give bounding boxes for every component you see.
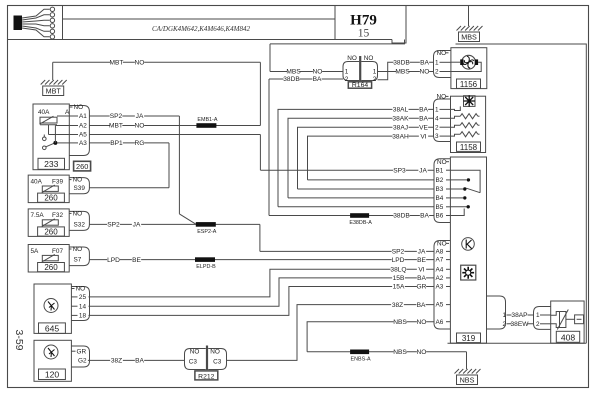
wire LPD-BE from S7 to A7	[89, 259, 434, 261]
svg-text:38DB: 38DB	[393, 213, 410, 220]
pin NO of F32	[69, 212, 71, 214]
svg-text:NO: NO	[364, 55, 374, 62]
label box 408	[556, 331, 579, 342]
svg-text:MBS: MBS	[461, 33, 477, 42]
splice EMB1-A	[196, 123, 216, 128]
label MBS-NO right of R164	[396, 68, 409, 75]
svg-text:15B: 15B	[393, 275, 405, 282]
svg-text:4: 4	[435, 115, 439, 122]
pin NO of 645	[71, 288, 74, 290]
wire 15A-GR from 645 pin18 to A3	[89, 287, 435, 316]
wire 1156 pin2 to motor	[451, 62, 481, 71]
svg-text:BA: BA	[313, 76, 322, 83]
svg-text:1: 1	[435, 107, 439, 114]
title block divider line	[63, 18, 336, 20]
svg-text:NBS: NBS	[393, 349, 407, 356]
pin GR of 120	[71, 350, 75, 352]
component box 408 aircon pressure sensor	[551, 301, 584, 343]
fuse element F39	[42, 186, 58, 191]
svg-text:B1: B1	[436, 167, 444, 174]
svg-text:NO: NO	[417, 349, 427, 356]
svg-text:38AP: 38AP	[511, 312, 528, 319]
wire SP2-JA vertical	[178, 116, 180, 214]
label SP2-JA at S32	[107, 221, 120, 228]
wire MBS-NO vertical	[269, 44, 271, 72]
svg-text:NO: NO	[437, 159, 447, 166]
label 38AJ-VE	[392, 124, 408, 131]
label MBT-NO left	[110, 59, 123, 66]
connector bracket B of 319	[434, 159, 450, 223]
pin NO of F07	[69, 248, 71, 250]
label 38AH-VI	[392, 133, 408, 140]
label 38EW	[511, 320, 527, 327]
svg-text:NBS: NBS	[460, 376, 475, 385]
component box 319 climate control	[450, 157, 486, 343]
wire SP2-JA to pin A8	[260, 250, 434, 252]
svg-text:38Z: 38Z	[111, 358, 122, 365]
svg-text:MBT: MBT	[46, 87, 62, 96]
svg-text:S39: S39	[74, 185, 86, 192]
svg-text:38DB: 38DB	[283, 76, 300, 83]
svg-text:2: 2	[536, 321, 540, 328]
label box 1158	[457, 142, 481, 151]
svg-text:RG: RG	[135, 140, 145, 147]
label 15A-GR	[392, 283, 405, 290]
connector bracket of 1158	[434, 99, 451, 142]
svg-text:B4: B4	[436, 195, 444, 202]
svg-text:A: A	[65, 109, 70, 116]
svg-text:A5: A5	[436, 302, 444, 309]
svg-text:A7: A7	[436, 257, 444, 264]
svg-text:A4: A4	[436, 266, 444, 273]
svg-text:C3: C3	[213, 358, 222, 365]
connector bracket of 408	[534, 307, 551, 330]
svg-text:NO: NO	[74, 104, 84, 111]
svg-text:3-59: 3-59	[13, 329, 25, 350]
svg-text:F32: F32	[52, 212, 63, 219]
svg-text:A8: A8	[436, 249, 444, 256]
label box 233	[38, 158, 65, 169]
svg-text:SP2: SP2	[392, 249, 405, 256]
svg-text:A3: A3	[79, 140, 87, 147]
label 38LQ-VI	[390, 266, 406, 273]
svg-text:NO: NO	[437, 94, 447, 101]
svg-text:1: 1	[345, 69, 349, 76]
component box 1158 fan resistor	[451, 96, 486, 152]
svg-text:38AH: 38AH	[392, 133, 409, 140]
svg-text:1: 1	[373, 69, 377, 76]
pin NO of F39	[69, 179, 71, 181]
svg-text:260: 260	[44, 194, 58, 203]
connector bracket of F07	[69, 247, 89, 266]
svg-text:R212: R212	[198, 373, 214, 380]
wire 38AP from 319 to 408	[509, 314, 534, 316]
wire BP1-RG vertical	[168, 143, 170, 188]
svg-text:NO: NO	[76, 286, 86, 293]
svg-text:BE: BE	[417, 257, 426, 264]
svg-text:7.5A: 7.5A	[31, 212, 45, 219]
svg-text:2: 2	[373, 76, 377, 83]
svg-text:260: 260	[44, 228, 58, 237]
svg-text:NO: NO	[420, 69, 430, 76]
svg-text:38AK: 38AK	[392, 116, 409, 123]
label BP1-RG	[110, 140, 123, 147]
connector bracket of F32	[69, 211, 89, 230]
wire MBS-NO from R164 pin2 right to 1156 pin2	[378, 71, 434, 73]
clock icon in 319	[462, 238, 475, 251]
svg-text:NO: NO	[135, 60, 145, 67]
svg-text:15: 15	[358, 28, 370, 40]
wire 38LQ-VI from 645 pin25 to A4	[89, 269, 435, 297]
svg-text:NO: NO	[437, 241, 447, 248]
wire MBT-NO from ground to junction	[53, 61, 261, 63]
splice ENBS-A	[350, 350, 369, 355]
svg-text:NO: NO	[347, 55, 357, 62]
label box 260 of F39	[38, 193, 65, 202]
svg-text:B2: B2	[436, 177, 444, 184]
splice E38DB-A	[350, 213, 369, 218]
label box 319	[457, 333, 481, 343]
svg-text:SP3: SP3	[393, 167, 406, 174]
label LPD-BE at S7	[107, 256, 120, 263]
label R212	[195, 371, 218, 380]
label SP2-JA at A8	[392, 248, 405, 255]
wire 38AH-VI to 1158 pin3	[308, 136, 434, 180]
svg-text:BA: BA	[135, 358, 144, 365]
svg-text:MBS: MBS	[286, 69, 301, 76]
label SP3-JA	[393, 167, 406, 174]
label 38AP	[511, 312, 527, 319]
svg-text:645: 645	[45, 324, 60, 334]
svg-text:2: 2	[435, 69, 439, 76]
svg-text:A6: A6	[436, 319, 444, 326]
label 38DB-BA right of R164	[393, 59, 409, 66]
label NBS-NO at ground	[394, 348, 407, 355]
svg-text:1: 1	[503, 312, 507, 319]
wire 38AL-BA to 1158 pin1	[278, 109, 434, 206]
svg-text:A2: A2	[79, 123, 87, 130]
wire 38DB-BA vertical	[268, 79, 270, 216]
wire SP2-JA from A1	[89, 115, 179, 117]
svg-text:319: 319	[462, 334, 476, 343]
svg-text:C3: C3	[189, 358, 198, 365]
wire NBS-NO from junction to A6	[307, 322, 434, 352]
wire MBS-NO top run	[270, 40, 405, 44]
wire 38AL-BA to pin B5	[278, 206, 434, 208]
connector bracket of 1156	[434, 51, 451, 78]
label 38DB-BA left of R164	[283, 76, 299, 83]
svg-text:BA: BA	[419, 107, 428, 114]
svg-text:233: 233	[44, 159, 59, 169]
fuse box F07	[28, 245, 69, 273]
svg-text:BP1: BP1	[110, 140, 123, 147]
label SP2-JA at A1	[110, 113, 123, 120]
wire SP2-JA from S32 through splice	[89, 223, 260, 225]
wire 38Z-BA from R212 to A5	[227, 305, 435, 361]
component box 645	[34, 284, 71, 333]
svg-text:F07: F07	[52, 248, 63, 255]
wire BP1-RG from A3	[89, 142, 169, 144]
svg-text:NO: NO	[73, 211, 83, 218]
svg-text:S7: S7	[74, 257, 82, 264]
ground MBT	[52, 62, 54, 80]
wire MBT-NO vertical	[259, 62, 261, 125]
icon circle 645	[44, 299, 58, 313]
wire 38DB-BA to pin B6	[269, 215, 434, 217]
harness connector icon	[14, 16, 23, 31]
fan icon 1158	[464, 96, 476, 107]
svg-text:A3: A3	[436, 284, 444, 291]
svg-text:NO: NO	[135, 123, 145, 130]
svg-text:S32: S32	[74, 222, 86, 229]
svg-text:BE: BE	[132, 257, 141, 264]
svg-text:ELPD-B: ELPD-B	[196, 264, 216, 270]
label 38Z-BA	[110, 357, 123, 364]
svg-text:260: 260	[44, 263, 58, 272]
wire 1156 pin1 to motor	[451, 61, 460, 63]
label MBS-NO left of R164	[287, 68, 300, 75]
label 15B-BA	[392, 275, 405, 282]
label box 1156	[457, 79, 481, 88]
splice ESP2-A	[196, 222, 216, 227]
wire 15B-BA from 645 pin14 to A2	[89, 278, 435, 306]
relay wiring in 233	[48, 125, 50, 135]
svg-text:JA: JA	[133, 222, 141, 229]
fuse box F32	[28, 209, 69, 237]
svg-text:H79: H79	[350, 13, 377, 29]
svg-text:A2: A2	[436, 275, 444, 282]
connector bracket R of 319	[487, 296, 506, 329]
svg-text:NO: NO	[313, 69, 323, 76]
svg-text:BA: BA	[420, 213, 429, 220]
sensor output icon in 408	[566, 318, 575, 320]
svg-text:NO: NO	[437, 50, 447, 57]
svg-text:3: 3	[435, 133, 439, 140]
svg-text:LPD: LPD	[392, 257, 405, 264]
pin 18	[71, 314, 77, 316]
fuse box F39	[28, 175, 69, 203]
svg-text:G2: G2	[78, 358, 87, 365]
svg-text:BA: BA	[417, 275, 426, 282]
svg-text:A5: A5	[79, 132, 87, 139]
label NBS-NO at A6	[394, 318, 407, 325]
wire 38AH-VI to pin B2	[308, 179, 435, 181]
fuse element F32	[42, 220, 58, 225]
svg-text:CA/DGK4M642,K4M646,K4M842: CA/DGK4M642,K4M646,K4M842	[152, 25, 251, 33]
label R164	[348, 82, 371, 88]
pin 25	[71, 296, 77, 298]
svg-text:38DB: 38DB	[393, 60, 410, 67]
svg-text:1158: 1158	[460, 143, 478, 152]
pin 14	[71, 305, 77, 307]
wire SP2-JA diagonal to splice	[179, 214, 196, 225]
wire NBS-NO to ground NBS	[307, 351, 466, 353]
svg-text:1: 1	[435, 59, 439, 66]
svg-text:NO: NO	[73, 177, 83, 184]
wire SP3-JA vertical	[259, 135, 261, 171]
title block divider title-box right edge	[334, 6, 336, 40]
svg-text:MBT: MBT	[110, 60, 124, 67]
label 38AK-BA	[392, 115, 408, 122]
fan speed switch in 319	[450, 170, 480, 193]
svg-text:BA: BA	[419, 116, 428, 123]
component box 120	[34, 340, 71, 381]
svg-text:NBS: NBS	[393, 319, 407, 326]
svg-text:VI: VI	[418, 267, 424, 274]
wire SP3-JA to pin B1	[260, 169, 434, 171]
svg-text:408: 408	[561, 332, 576, 342]
title block bottom edge	[8, 39, 393, 41]
air conditioning icon in 319	[461, 265, 476, 280]
label LPD-BE at A7	[392, 256, 405, 263]
pin NO of 233	[69, 106, 72, 108]
sensor element in 408	[551, 312, 560, 316]
component box 233 supply relay	[33, 104, 69, 170]
svg-text:MBT: MBT	[109, 123, 123, 130]
svg-text:BA: BA	[417, 302, 426, 309]
svg-text:LPD: LPD	[107, 257, 120, 264]
svg-text:260: 260	[76, 162, 88, 171]
connector R164	[343, 62, 359, 81]
svg-text:5A: 5A	[31, 248, 40, 255]
svg-text:MBS: MBS	[395, 69, 410, 76]
svg-text:F39: F39	[52, 178, 63, 185]
wire MBS-NO from R164 pin1 left	[270, 71, 343, 73]
svg-text:38Z: 38Z	[392, 302, 403, 309]
svg-text:14: 14	[79, 303, 87, 310]
title block narrow section	[392, 6, 406, 44]
connector R212	[185, 349, 206, 370]
wire 38AK-BA to pin B4	[288, 197, 434, 199]
label box 645	[39, 323, 66, 334]
label MBT-NO at A2	[110, 122, 123, 129]
svg-text:40A: 40A	[38, 109, 50, 116]
splice ELPD-B	[195, 257, 215, 262]
svg-text:1: 1	[536, 312, 540, 319]
fan motor icon 1156	[462, 55, 476, 69]
svg-text:18: 18	[79, 313, 87, 320]
ground MBS	[468, 6, 470, 26]
svg-text:40A: 40A	[31, 178, 43, 185]
label box 260 of F07	[38, 263, 65, 272]
svg-text:JA: JA	[419, 167, 427, 174]
wire 38AJ-VE to pin B3	[298, 188, 435, 190]
wire 38Z-BA from 120 G2 to R212	[88, 359, 185, 361]
svg-text:38AL: 38AL	[393, 107, 409, 114]
svg-text:EMB1-A: EMB1-A	[197, 117, 217, 123]
svg-text:JA: JA	[136, 113, 144, 120]
svg-text:ENBS-A: ENBS-A	[351, 356, 371, 362]
svg-text:GR: GR	[77, 348, 87, 355]
svg-text:A1: A1	[79, 113, 87, 120]
wire 38DB-BA from R164 pin1 right to 1156 pin1	[378, 62, 434, 80]
connector bracket of 120	[71, 346, 89, 367]
connector bracket A of 319	[434, 241, 450, 330]
svg-text:R164: R164	[352, 82, 368, 89]
svg-text:B5: B5	[436, 204, 444, 211]
svg-text:JA: JA	[418, 249, 426, 256]
wire BP1-RG to S39	[89, 187, 169, 189]
resistor elements 1158	[451, 106, 461, 110]
svg-text:NO: NO	[417, 319, 427, 326]
fuse element F07	[42, 255, 58, 260]
svg-text:B6: B6	[436, 213, 444, 220]
icon circle 120	[44, 345, 58, 359]
label box 260 of F32	[38, 227, 65, 236]
label 38Z-BA at A5	[391, 301, 404, 308]
svg-text:NO: NO	[210, 349, 220, 356]
wire SP2-JA vertical to A8 row	[259, 224, 261, 251]
svg-text:ESP2-A: ESP2-A	[197, 229, 217, 235]
connector label 260 bold	[74, 161, 91, 171]
svg-text:38EW: 38EW	[511, 321, 530, 328]
svg-text:2: 2	[435, 124, 439, 131]
svg-text:GR: GR	[417, 284, 427, 291]
svg-text:NO: NO	[190, 349, 200, 356]
svg-text:SP2: SP2	[110, 113, 123, 120]
svg-text:25: 25	[79, 294, 87, 301]
svg-text:1156: 1156	[460, 80, 478, 89]
svg-text:2: 2	[503, 321, 507, 328]
label 38DB-BA at B6	[393, 212, 409, 219]
relay switch arm in 233	[46, 143, 55, 147]
connector bracket 260 of 233	[69, 106, 89, 156]
ground NBS	[466, 352, 468, 369]
component box 1156 fan motor	[451, 48, 487, 89]
dashed enclosure around cooling module	[456, 44, 587, 343]
svg-text:15A: 15A	[393, 284, 405, 291]
svg-text:VE: VE	[419, 124, 428, 131]
label 38AL-BA	[392, 106, 408, 113]
svg-text:VI: VI	[420, 133, 426, 140]
connector bracket of F39	[69, 178, 89, 194]
title block divider icon-box right edge	[62, 6, 64, 40]
wire 38DB-BA from R164 pin2 left	[269, 78, 343, 80]
label box 120	[39, 369, 66, 380]
svg-text:B3: B3	[436, 186, 444, 193]
wire 38EW from 319 to 408	[509, 323, 534, 325]
svg-text:38AJ: 38AJ	[393, 124, 408, 131]
svg-text:38LQ: 38LQ	[390, 267, 406, 274]
fuse element in 233	[40, 117, 57, 123]
svg-text:NO: NO	[73, 246, 83, 253]
svg-text:SP2: SP2	[107, 222, 120, 229]
wire 38AJ-VE to 1158 pin2	[298, 127, 434, 189]
svg-text:BA: BA	[420, 60, 429, 67]
wire MBT-NO to pin A2	[89, 125, 260, 127]
connector bracket of 645	[71, 287, 89, 321]
wire 38AK-BA to 1158 pin4	[288, 118, 434, 198]
svg-text:E38DB-A: E38DB-A	[349, 220, 372, 226]
svg-text:120: 120	[45, 370, 60, 380]
wire SP3-JA from A5 of 233	[89, 134, 260, 136]
